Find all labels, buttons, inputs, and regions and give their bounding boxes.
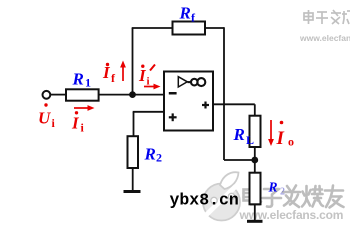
op-amp gain symbol triangle <box>178 77 187 87</box>
wire: Rf right to feedback corner <box>205 27 224 29</box>
op-amp U1 <box>164 72 213 131</box>
resistor R (current sampling) <box>250 173 261 205</box>
resistor R2 <box>128 136 139 168</box>
wire: elbow down to R2 <box>133 112 135 136</box>
op-amp minus input sign <box>169 92 177 95</box>
svg-text:2: 2 <box>156 151 162 165</box>
op-amp output plus sign <box>202 102 209 109</box>
svg-text:U: U <box>38 109 51 128</box>
svg-text:R: R <box>233 125 245 144</box>
svg-text:R: R <box>268 180 278 195</box>
resistor R1 <box>66 89 99 100</box>
wire: node A up to Rf <box>132 28 134 95</box>
label Ui with dot and subscript <box>38 103 56 130</box>
wire: R to ground <box>254 204 256 220</box>
watermark (top right, faint): chinese + url <box>304 10 350 24</box>
label If with dot and subscript <box>102 63 116 85</box>
char fa <box>283 186 300 208</box>
input terminal Ui <box>43 91 51 99</box>
node B junction dot <box>251 157 258 164</box>
wire: node A to op-amp inverting input <box>133 94 165 96</box>
arrow Io (down) <box>268 120 274 146</box>
label Io with dot and subscript <box>276 121 295 149</box>
wire: non-inverting input to R2 elbow <box>133 111 164 113</box>
svg-text:o: o <box>288 135 294 149</box>
char you <box>325 186 344 208</box>
wire: feedback vertical down to output sense node <box>223 27 225 160</box>
label R (bottom resistor) <box>268 180 286 198</box>
watermark chinese text (bottom): 电子发烧友 approximated strokes <box>244 186 344 208</box>
arrow Ii' (right) <box>144 84 161 90</box>
resistor Rf <box>173 22 206 35</box>
label RL <box>233 125 255 147</box>
svg-text:ybx8.cn: ybx8.cn <box>170 191 239 210</box>
wire: op-amp output <box>213 103 255 105</box>
resistor RL <box>250 116 261 147</box>
svg-text:R: R <box>179 4 191 23</box>
label R2 <box>144 145 163 165</box>
ground (R2) <box>124 190 141 193</box>
svg-text:1: 1 <box>85 76 91 90</box>
char dian <box>244 186 262 205</box>
svg-text:R: R <box>144 145 156 164</box>
char zi <box>263 189 282 207</box>
node A junction dot <box>129 91 136 98</box>
svg-text:L: L <box>246 133 254 147</box>
arrow If (up) <box>120 61 126 82</box>
label R1 <box>72 70 92 90</box>
label Rf <box>179 4 197 25</box>
wire: up elbow to Rf left <box>132 27 173 29</box>
wire: feedback bottom horizontal to node B <box>224 159 255 161</box>
wire: R2 to ground <box>132 168 134 191</box>
svg-text:www.elecfans.com: www.elecfans.com <box>299 33 350 43</box>
ground (R) <box>247 220 263 223</box>
label Ii with dot, subscript and arrow <box>71 111 85 134</box>
wire: output elbow down to RL <box>254 104 256 115</box>
watermark logo circle (bottom) <box>203 172 240 220</box>
arrow Ii <box>74 105 95 111</box>
label Ii' with dot, prime and subscript <box>138 65 155 88</box>
svg-text:2: 2 <box>280 187 285 198</box>
op-amp infinity symbol <box>188 78 206 86</box>
char shao <box>302 186 323 207</box>
wire: terminal to R1 <box>51 94 66 96</box>
op-amp plus input sign <box>169 113 177 121</box>
svg-text:I: I <box>276 128 285 149</box>
svg-text:R: R <box>72 70 84 89</box>
wire: RL to node B <box>254 147 256 173</box>
wire: R1 to node A <box>99 94 133 96</box>
